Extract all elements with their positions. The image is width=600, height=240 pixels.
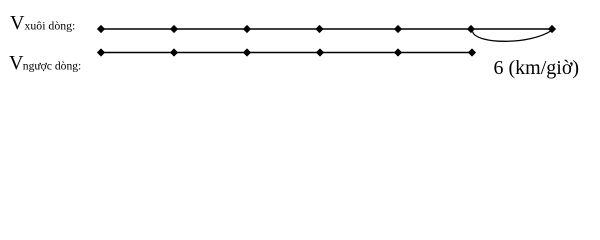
node marker bottom 2: [170, 48, 178, 56]
node marker top 6: [467, 25, 475, 33]
node marker top 4: [315, 25, 323, 33]
node marker bottom 1: [97, 48, 105, 56]
node marker top 7: [548, 25, 556, 33]
node marker top 2: [170, 25, 178, 33]
svg-text:ngược dòng:: ngược dòng:: [23, 60, 81, 73]
node marker top 5: [394, 25, 402, 33]
wire bottom line (V nguoc dong): [101, 52, 472, 54]
svg-text:6 (km/giờ): 6 (km/giờ): [494, 57, 580, 79]
node marker bottom 3: [243, 48, 251, 56]
svg-text:V: V: [10, 12, 25, 34]
svg-text:V: V: [9, 52, 24, 74]
node marker bottom 5: [394, 48, 402, 56]
node marker bottom 4: [316, 48, 324, 56]
svg-text:xuôi dòng:: xuôi dòng:: [25, 19, 76, 33]
node marker bottom 6: [468, 48, 476, 56]
wire top line (V xuoi dong): [101, 28, 552, 30]
brace curve for 6 km/h difference: [473, 31, 552, 42]
node marker top 3: [243, 25, 251, 33]
node marker top 1: [97, 25, 105, 33]
